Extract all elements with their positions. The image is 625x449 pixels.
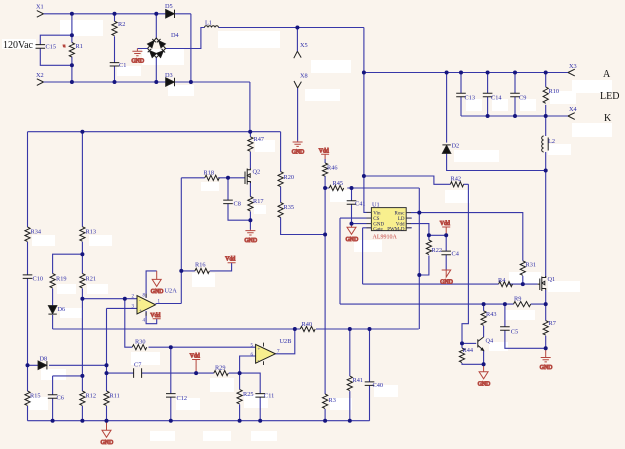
junction C5 sense [503,302,507,306]
junction Q4 base [460,341,464,345]
svg-text:U1: U1 [372,202,380,209]
svg-text:R11: R11 [110,393,120,400]
wire X1 top rail y=14 [44,13,191,15]
junction X1 rail R1 [70,12,74,16]
wire pin3 column [106,308,108,420]
svg-text:R4: R4 [498,277,506,284]
svg-text:GND: GND [346,237,359,243]
capacitor C10 [23,275,33,279]
pin numbers U2A [132,294,161,324]
op-amp U1 IC body [367,208,412,231]
resistor R12 [80,391,85,405]
junction Q1 source sense [544,302,548,306]
svg-text:Q4: Q4 [486,338,495,345]
wire R13 column [81,132,83,421]
wire Q4 base feed [462,342,476,344]
junction R22 bottom [417,273,421,277]
junction rail R11 [105,419,109,423]
wire R17 foot gnd stem [249,220,251,229]
junction Vin R42 feeder [362,174,366,178]
resistor R25 [237,389,242,403]
wire Vdd node to C4 [429,235,446,270]
wire bridge top lead [155,14,157,38]
svg-text:R40: R40 [302,321,313,328]
junction X1 rail bridge [154,12,158,16]
junction rail R12 [80,419,84,423]
resistor R44 [459,348,464,362]
junction pin2 R30 [123,297,127,301]
opamp U2A [137,296,156,315]
wire PWM-D stub [406,227,412,229]
svg-text:R16: R16 [195,262,206,269]
junction R45 C41 [350,186,354,190]
junction mid rail R13 [80,130,84,134]
junction Vdd C7 row [194,371,198,375]
transistor Q4 [478,337,484,351]
svg-text:Vdd: Vdd [150,313,160,319]
svg-text:AL9910A: AL9910A [373,235,398,241]
svg-text:K: K [604,113,612,124]
resistor R31 [520,261,525,275]
junction C13 top [459,71,463,75]
svg-text:D6: D6 [58,306,66,313]
wire feedback row y=329 [53,328,419,330]
wire pin3 row [107,307,138,309]
wire Q1 source to R7 [545,290,547,348]
capacitor C13 [456,93,466,97]
svg-text:Vin: Vin [373,211,381,216]
junction D2 tap [445,71,449,75]
wire Gate drop [363,228,372,284]
connector X5 [294,51,301,58]
junction R46 R45 [323,186,327,190]
wire R46 column down to R3 [324,176,326,421]
wire LD stub [406,217,412,219]
resistor R9 [514,302,531,307]
mosfet Q2 [245,169,250,185]
power Vdd R16 [225,257,235,263]
capacitor C8 [223,200,233,204]
wire R16 row [181,263,231,271]
junction R7 C5 [544,346,548,350]
wire D2 to L2 bottom [447,153,546,170]
svg-text:R19: R19 [56,276,67,283]
junction rail C6 [51,419,55,423]
junction rail C11 [258,419,262,423]
svg-text:X2: X2 [36,72,44,79]
resistor R22 [426,240,431,254]
svg-text:+: + [139,309,142,314]
wire C8 top [227,178,229,200]
svg-text:R35: R35 [284,204,295,211]
svg-text:R3: R3 [329,397,336,404]
diode D2 [442,145,450,153]
wire C11 bottom [259,397,261,421]
svg-text:R34: R34 [31,229,42,236]
svg-text:C6: C6 [57,395,64,402]
wire bridge right to L1 [166,28,205,49]
wire C6 column [52,376,54,421]
wire X5 drop [296,28,298,52]
wire X8 to GND [297,88,299,141]
wire R1 column [71,14,73,82]
wire Rosc row to R31 [406,213,523,261]
svg-text:Vdd: Vdd [190,354,200,360]
junction C9 top [513,71,517,75]
wire vertical R18 to opamp output [180,178,182,304]
wire rectified rail to LED anode row [364,72,568,74]
resistor R43 [481,311,486,325]
svg-text:R43: R43 [486,311,497,318]
junction R29 R25 [238,371,242,375]
resistor R13 [80,227,85,241]
svg-text:A: A [603,69,611,80]
junction D8 left [26,363,30,367]
svg-text:R10: R10 [549,88,560,95]
junction C7 left [105,371,109,375]
svg-text:R15: R15 [30,393,41,400]
wire Vin vertical [364,28,372,213]
resistor R10 [543,87,548,103]
wire D2 drop [446,73,448,143]
wire R41 column [349,329,351,421]
junction C9 bottom [513,114,517,118]
svg-text:U2B: U2B [280,338,292,345]
svg-text:LED: LED [600,91,619,102]
wire Vdd pin to R22 [406,224,429,236]
resistor R21 [80,274,85,288]
svg-text:D5: D5 [165,3,173,10]
wire D5 output drop [190,14,192,82]
resistor R19 [50,274,55,288]
capacitor C14 [483,93,493,97]
svg-text:C14: C14 [491,95,502,102]
power Vdd C4 [440,221,450,235]
junction D8 right [105,363,109,367]
svg-text:R45: R45 [333,180,344,187]
capacitor C5 [500,327,510,331]
power Vdd R46 [319,148,329,159]
capacitor C12 [166,394,176,398]
resistor R35 [278,203,283,218]
svg-text:D8: D8 [40,356,48,363]
resistor R17 [248,197,253,211]
junction AC rail R1 [70,80,74,84]
svg-text:Vdd: Vdd [225,257,235,263]
wire bridge bottom lead [155,58,157,82]
svg-text:GND: GND [540,365,553,371]
wire pin6 feed [240,356,256,373]
wire pin2 row [82,298,137,300]
capacitor C41 [347,201,357,205]
junction rail C12 [169,419,173,423]
connector X3 [568,69,575,76]
wire L2 leads [545,116,547,171]
wire Q4 emitter to gnd node [483,351,485,365]
svg-text:C1: C1 [119,62,126,69]
wire R45/Rosc vertical [418,188,420,329]
svg-text:R21: R21 [86,276,97,283]
svg-text:R18: R18 [204,170,215,177]
svg-text:R1: R1 [76,43,83,50]
wire R2/C1 column [114,14,116,82]
wire R30 drop [125,299,132,348]
svg-text:120Vac: 120Vac [3,40,34,51]
resistor R45 [329,185,343,190]
junction AC rail C1 [113,80,117,84]
svg-text:D2: D2 [452,143,460,150]
junction X1 rail R2 [113,12,117,16]
resistor R2 [112,21,117,36]
diode D5 [166,10,175,18]
svg-text:Vdd: Vdd [440,221,450,227]
junction C15 top [70,33,74,37]
inductor L2 [542,136,544,152]
capacitor C11 [255,394,265,398]
junction R41 top [348,327,352,331]
wire C11 feed [240,373,261,393]
svg-text:R30: R30 [135,339,146,346]
svg-text:PWM-D: PWM-D [387,227,405,232]
svg-text:X5: X5 [300,42,308,49]
power Vdd U2A [150,313,160,319]
wire L2 to Q1 drain [545,171,547,278]
svg-text:Q2: Q2 [253,169,261,176]
junction X5 tap [295,26,299,30]
wire C6 top row [53,375,83,377]
svg-text:GND: GND [151,289,164,295]
resistor R47 [248,137,253,151]
resistor R18 [205,175,219,180]
ground U2A top [151,271,164,295]
junction R31 gate row [521,282,525,286]
ground X8 [292,141,305,156]
ground R7 foot [540,348,553,371]
diode D8 [38,361,47,369]
opamp U2B [256,344,276,363]
mosfet Q1 [538,276,546,291]
junction C6 R12 [80,374,84,378]
wire R10 column [545,73,547,117]
wire C8 bottom to R17 foot [228,204,250,221]
junction L2 D2 [544,169,548,173]
svg-text:C8: C8 [234,201,241,208]
wire bridge left vertex to ground [137,48,147,50]
wire GND pin row [352,223,372,225]
resistor R11 [104,391,109,405]
junction R22 top [427,233,431,237]
wire opamp output [156,303,182,305]
junction R13 R19 [80,252,84,256]
wire R42 feeder [364,176,469,184]
junction Q4 emitter gnd [482,362,486,366]
resistor R34 [25,227,30,241]
junction rail R41 [348,419,352,423]
svg-text:Vdd: Vdd [319,148,329,154]
wire R25 column [239,373,241,421]
junction R43 sense [482,302,486,306]
junction pin2 R21 [80,297,84,301]
junction R10 top [544,71,548,75]
svg-text:R44: R44 [463,347,474,354]
junction R17 C8 foot [248,218,252,222]
wire main mid rail y=131.7 [28,131,281,133]
svg-text:R20: R20 [284,174,295,181]
resistor R29 [214,371,228,376]
junction AC rail bridge [154,80,158,84]
wire C13 column [460,73,462,117]
svg-text:C5: C5 [511,329,518,336]
resistor R15 [25,391,30,405]
svg-text:R9: R9 [514,296,521,303]
svg-text:GND: GND [440,280,453,286]
wire U2A vdd stub [146,311,157,324]
connector X2 [37,79,44,86]
svg-text:X3: X3 [569,63,577,70]
svg-text:GND: GND [478,382,491,388]
resistor R20 [278,172,283,187]
svg-text:R7: R7 [549,320,556,327]
resistor R1 [69,43,74,58]
wire C12 column [170,347,172,421]
svg-text:X1: X1 [36,4,44,11]
capacitor C1 [110,63,120,66]
svg-text:R2: R2 [118,21,125,28]
resistor R4 [499,282,513,287]
capacitor C6 [48,395,58,399]
svg-text:R31: R31 [526,262,537,269]
wire bottom rail y=420.7 [28,420,370,422]
wire R44 column [462,343,484,364]
svg-text:Gate: Gate [373,227,383,232]
ground Q4 emitter [478,364,491,387]
ground bottom rail [101,421,114,446]
svg-text:R13: R13 [86,229,97,236]
junction R35 R46 column [323,233,327,237]
junction Rosc column [417,211,421,215]
wire R45 row [325,187,419,189]
svg-text:R46: R46 [327,165,338,172]
wire R20/R35 column [281,132,326,235]
svg-text:+: + [258,348,261,353]
svg-text:C11: C11 [264,393,274,400]
svg-text:X8: X8 [300,73,308,80]
junction C14 top [486,71,490,75]
connector X4 [568,113,575,120]
ground C4 [440,270,453,286]
svg-text:R17: R17 [253,198,264,205]
svg-text:C7: C7 [134,362,141,369]
svg-text:GND: GND [132,59,145,65]
wire C9 column [514,73,516,117]
wire C41 column [351,188,353,224]
svg-text:X4: X4 [569,106,578,113]
wire C14 column [487,73,489,117]
svg-text:R47: R47 [254,136,265,143]
resistor R30 [132,345,146,350]
wire R43 to Q4 collector [483,326,485,337]
wire C15 bottom stub [40,48,72,65]
junction AC rail D5 drop [189,80,193,84]
diode D3 [166,78,175,86]
resistor R40 [300,326,315,331]
svg-text:C15: C15 [46,44,57,51]
svg-text:GND: GND [292,150,305,156]
svg-text:D4: D4 [171,32,180,39]
junction C40 top [368,327,372,331]
junction mid rail R47 [248,130,252,134]
junction R16 output [179,269,183,273]
connector X8 [294,81,301,88]
svg-text:C40: C40 [373,382,384,389]
junction C14 bottom [486,114,490,118]
pin labels U1 [373,211,405,232]
capacitor C15 [36,45,46,49]
wire R42 right drop [462,184,468,343]
svg-text:GND: GND [101,440,114,446]
wire C15 top stub [40,35,72,44]
wire sense row y=304.1 [340,303,546,305]
ground bridge [132,49,145,65]
capacitor C7 [134,368,142,378]
junction R30 C12 [169,345,173,349]
capacitor C4 [441,251,451,255]
wire CS row [340,217,371,219]
svg-text:C10: C10 [33,276,44,283]
svg-text:C9: C9 [519,95,526,102]
svg-text:GND: GND [245,238,258,244]
capacitor C9 [510,93,520,97]
resistor R16 [195,268,209,273]
diode D6 [48,306,56,314]
wire L1 to Vin node [219,27,364,29]
resistor R3 [323,394,328,408]
resistor R46 [323,163,328,176]
junction C15 bottom [70,63,74,67]
wire R18 row to Q2 gate [181,177,245,179]
ground C41 [346,224,359,243]
junction GND pin C41 [350,222,354,226]
inductor L1 [205,26,219,28]
wire LED cathode row y=116 [461,115,568,117]
bridge rectifier D4 [148,38,166,58]
junction U2B out feedback [293,327,297,331]
junction R10 bottom [544,114,548,118]
wire CS drop to sense row [339,218,341,304]
svg-text:R42: R42 [451,176,462,183]
wire D8 row [28,364,107,366]
svg-text:C12: C12 [177,395,188,402]
wire R19-D6 link [52,289,54,306]
svg-text:D3: D3 [165,72,173,79]
wire C5 column [505,304,546,348]
wire left column R34/C10/R15 [27,132,29,421]
wire R30 to U2B pin5 [149,346,256,348]
svg-text:R41: R41 [353,377,364,384]
resistor R7 [543,321,548,335]
wire rectifier bottom drop to R47 [249,82,251,132]
svg-text:LD: LD [398,217,405,222]
svg-text:Rosc: Rosc [395,211,406,216]
wire R31 bottom lead [522,276,524,284]
svg-text:R12: R12 [86,393,97,400]
junction C8 gate row [226,176,230,180]
svg-text:C13: C13 [465,95,476,102]
resistor R41 [347,376,352,390]
junction Vin corner [362,71,366,75]
wire R43 top lead [483,304,485,311]
wire R47/Q2/R17 column [249,132,251,221]
